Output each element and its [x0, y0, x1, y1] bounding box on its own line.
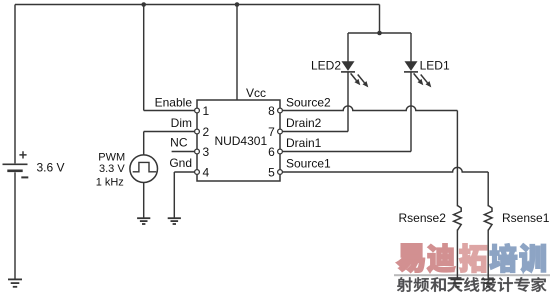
svg-text:NUD4301: NUD4301 [214, 134, 267, 148]
svg-text:NC: NC [170, 136, 188, 150]
svg-text:8: 8 [268, 104, 275, 118]
svg-text:Drain2: Drain2 [286, 116, 322, 130]
svg-text:Rsense1: Rsense1 [502, 211, 550, 225]
watermark slogan 射频和天线设计专家 [397, 277, 412, 291]
wire PWM source to ground [143, 183, 145, 219]
ground (IC pin 4) [168, 218, 181, 224]
wire Rsense2 to ground [456, 230, 458, 280]
wire Drain2 (pin 7) [283, 131, 348, 133]
svg-text:Source2: Source2 [286, 96, 331, 110]
pin 3 [195, 149, 200, 154]
LED LED2 [342, 61, 355, 71]
wire Source1 (pin 5) to Rsense1 with crossover hop [280, 167, 488, 172]
resistor Rsense1 [484, 206, 492, 231]
watermark underline [394, 274, 550, 276]
svg-text:Gnd: Gnd [169, 156, 192, 170]
wire LED2 cathode vertical [347, 72, 349, 132]
LED LED1 [405, 61, 418, 71]
wire enable vertical [143, 5, 145, 111]
svg-text:Dim: Dim [171, 116, 192, 130]
ground (Rsense1) [481, 279, 495, 286]
wire Dim vertical to PWM source [143, 132, 145, 155]
junction node LED anodes [377, 31, 382, 36]
svg-text:6: 6 [268, 145, 275, 159]
svg-text:7: 7 [268, 125, 275, 139]
pin 2 [195, 129, 200, 134]
svg-text:4: 4 [203, 165, 210, 179]
pin 1 [195, 108, 200, 113]
svg-text:LED1: LED1 [420, 59, 450, 73]
svg-text:Drain1: Drain1 [286, 136, 322, 150]
svg-text:1: 1 [203, 104, 210, 118]
svg-text:Enable: Enable [155, 96, 193, 110]
wire LED anode rail [348, 32, 411, 34]
svg-text:3.3 V: 3.3 V [99, 163, 125, 175]
ground (battery) [8, 279, 22, 286]
svg-text:Vcc: Vcc [246, 86, 266, 100]
junction node Enable rail [141, 2, 146, 7]
wire battery positive lead [14, 5, 16, 164]
wire Rsense1 to ground [487, 230, 489, 280]
junction node Vcc [235, 2, 240, 7]
svg-text:LED2: LED2 [311, 59, 341, 73]
watermark logo text 易迪拓培训 [396, 244, 424, 273]
wire Source2 (pin 8) to Rsense2 with crossover hops [280, 106, 457, 111]
pin 7 [278, 129, 283, 134]
svg-text:1 kHz: 1 kHz [96, 177, 124, 189]
svg-text:2: 2 [203, 125, 210, 139]
wire LED2 anode [347, 33, 349, 62]
wire Drain1 (pin 6) [283, 151, 411, 153]
svg-text:PWM: PWM [98, 151, 125, 163]
wire Source2 down to Rsense2 [456, 111, 458, 207]
pin 8 [278, 108, 283, 113]
wire LED1 cathode vertical [410, 72, 412, 152]
wire battery negative lead [14, 172, 16, 279]
ground (PWM source) [137, 218, 150, 224]
LED LED2 emission arrows [351, 73, 357, 80]
svg-text:3: 3 [203, 145, 210, 159]
wire Vcc vertical [236, 5, 238, 101]
ground (Rsense2) [450, 279, 464, 286]
wire top rail (battery + to LEDs) [15, 4, 380, 6]
wire Gnd vertical [173, 172, 175, 218]
svg-text:Rsense2: Rsense2 [399, 211, 447, 225]
IC U1 NUD4301 body [197, 100, 280, 181]
resistor Rsense2 [454, 206, 462, 231]
wire LED feed vertical [379, 5, 381, 34]
wire Gnd to pin 4 [174, 171, 197, 173]
wire Dim to pin 2 [144, 131, 197, 133]
svg-text:3.6 V: 3.6 V [37, 161, 65, 175]
pin 6 [278, 149, 283, 154]
svg-text:5: 5 [268, 165, 275, 179]
wire NC stub pin 3 [172, 151, 197, 153]
svg-text:Source1: Source1 [286, 156, 331, 170]
PWM source V1 [130, 155, 158, 183]
LED LED1 emission arrows [414, 73, 420, 80]
wire LED1 anode [410, 33, 412, 62]
battery BT1 3.6 V [3, 163, 28, 165]
pin 5 [278, 170, 283, 175]
wire to pin 1 [144, 110, 197, 112]
wire Source1 down to Rsense1 [487, 172, 489, 206]
pin 4 [195, 170, 200, 175]
